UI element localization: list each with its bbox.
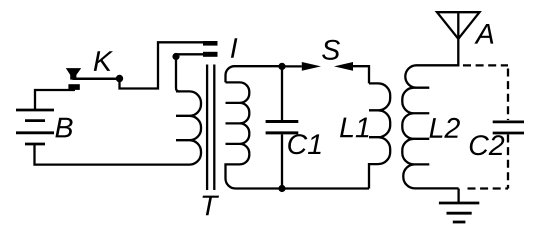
spark gap label S xyxy=(322,40,340,60)
inductor L2 coil xyxy=(402,65,458,188)
key K fixed contact xyxy=(68,84,79,90)
interrupter I lower contact bar xyxy=(203,52,218,57)
antenna A triangle xyxy=(437,12,480,39)
transformer label T xyxy=(203,196,220,216)
inductor L1 coil xyxy=(369,83,390,188)
capacitor C2 dashed top wire xyxy=(463,64,508,66)
capacitor C2 dashed bottom wire xyxy=(507,135,509,189)
interrupter I upper contact bar xyxy=(203,41,218,46)
key K pivot dot xyxy=(116,75,123,82)
wire spark gap to L1 top xyxy=(353,66,369,83)
wire battery top to key contact xyxy=(35,90,75,110)
transformer T primary coil xyxy=(176,91,201,164)
wire dot to spark gap xyxy=(282,65,302,67)
spark gap S right arrow xyxy=(334,62,353,71)
transformer T core lines xyxy=(206,65,208,191)
junction dot at primary top xyxy=(172,53,179,60)
ground bars xyxy=(439,203,479,222)
junction dot C1 top xyxy=(278,63,285,70)
capacitor C1 plates xyxy=(266,122,299,133)
capacitor label C2 xyxy=(470,135,504,155)
antenna label A xyxy=(474,24,493,44)
capacitor C2 plates xyxy=(493,122,524,133)
key label K xyxy=(94,51,113,71)
inductor label L2 xyxy=(430,118,460,138)
capacitor C1 top wire xyxy=(281,66,283,120)
capacitor label C1 xyxy=(288,134,320,154)
wire primary bottom to battery (left rail) xyxy=(35,144,177,165)
key K lever xyxy=(73,77,118,80)
battery label B xyxy=(55,118,72,138)
battery B plates xyxy=(16,110,54,144)
key K knob wedge xyxy=(66,68,81,80)
transformer T secondary coil xyxy=(226,66,283,82)
ground stem xyxy=(457,189,459,204)
interrupter label I xyxy=(231,38,237,58)
antenna stem xyxy=(457,12,459,66)
spark gap S left arrow xyxy=(302,62,321,71)
wire lower bar to junction dot xyxy=(176,53,206,55)
capacitor C1 bottom wire xyxy=(281,134,283,188)
junction dot C1 bottom xyxy=(278,185,285,192)
wire dot down to primary coil xyxy=(176,57,180,92)
inductor label L1 xyxy=(340,118,368,138)
wire key dot to interrupter top contact xyxy=(120,42,207,88)
